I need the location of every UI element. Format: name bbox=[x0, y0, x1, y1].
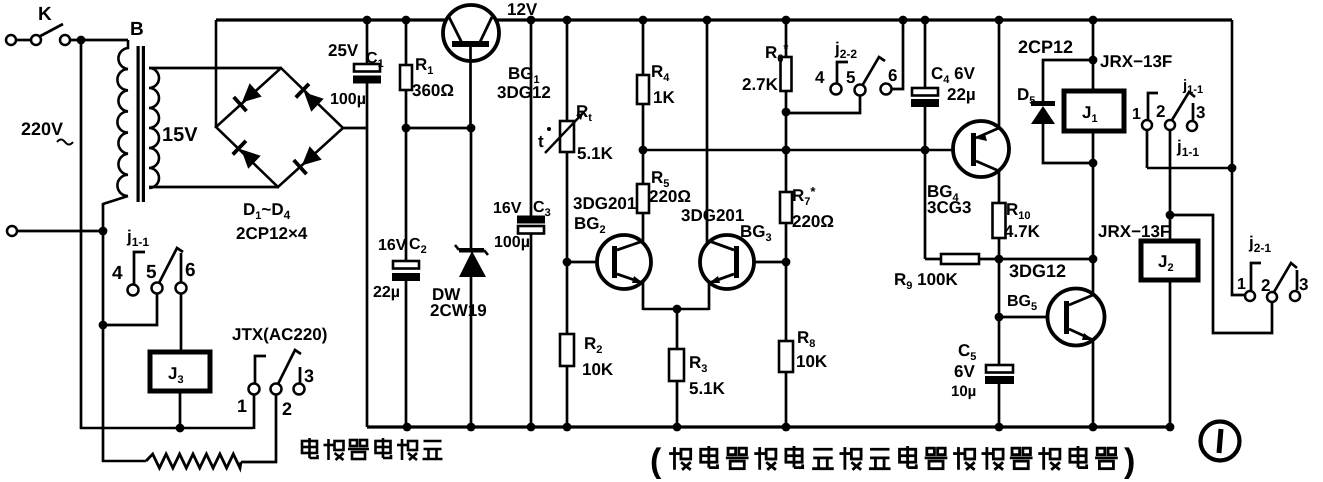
contact j2-2 terminal 4 stub bbox=[837, 62, 848, 83]
contact j1-1tr terminal 2 circle bbox=[1165, 120, 1175, 130]
svg-text:t: t bbox=[538, 132, 544, 151]
wire BG4 emitter to rail bbox=[998, 20, 1001, 128]
node junction contact5 tap bbox=[99, 321, 108, 330]
wire JTX terminal2 down to heater bbox=[241, 395, 276, 462]
wire C4 bottom bbox=[924, 107, 927, 150]
wire R6 bottom bbox=[785, 91, 788, 150]
capacitor C4 bbox=[912, 88, 938, 96]
transistor BG1 bbox=[443, 5, 499, 61]
wire C3 top bbox=[530, 20, 533, 217]
wire C4 top bbox=[924, 20, 927, 88]
wire Rt top bbox=[566, 20, 569, 121]
svg-text:220Ω: 220Ω bbox=[792, 212, 834, 231]
node junction node B bbox=[995, 255, 1004, 264]
wire right edge to j2-1 bbox=[1232, 292, 1245, 295]
svg-text:100µ: 100µ bbox=[494, 234, 530, 251]
wire BG5 collector bbox=[1092, 259, 1095, 296]
node junction rail C3 bbox=[527, 16, 536, 25]
node junction emitters bbox=[673, 305, 682, 314]
wire C1 bottom to ground bbox=[366, 83, 369, 427]
svg-text:10K: 10K bbox=[796, 352, 828, 371]
wire J2 bottom lead bbox=[1169, 280, 1172, 427]
wire j2-2 terminal 6 to rail bbox=[891, 20, 903, 89]
svg-text:6: 6 bbox=[185, 260, 196, 281]
svg-text:C4 6V: C4 6V bbox=[931, 64, 976, 86]
node junction R4 R5 bbox=[639, 146, 648, 155]
terminal 220V lower circle bbox=[7, 226, 17, 236]
wire C5 top bbox=[998, 317, 1001, 365]
wire BG5 emitter to ground bbox=[1092, 339, 1095, 427]
svg-text:JRX−13F: JRX−13F bbox=[1098, 222, 1170, 241]
svg-text:5.1K: 5.1K bbox=[689, 379, 726, 398]
switch K blade bbox=[40, 24, 64, 37]
wire BG2 base lead bbox=[567, 261, 597, 264]
svg-text:1K: 1K bbox=[653, 88, 675, 107]
svg-text:2: 2 bbox=[282, 399, 292, 419]
contact JTX terminal 1 circle bbox=[249, 384, 260, 395]
node junction D5 bottom bbox=[1089, 159, 1098, 168]
switch K throw circle bbox=[60, 35, 70, 45]
wire R10 bottom bbox=[998, 238, 1001, 317]
contact j1-1tr terminal 1 circle bbox=[1142, 120, 1152, 130]
svg-text:2: 2 bbox=[1261, 276, 1270, 295]
capacitor C2 bbox=[393, 261, 419, 269]
contact j1-1tr blade bbox=[1172, 92, 1195, 120]
svg-text:JTX(AC220): JTX(AC220) bbox=[232, 325, 327, 344]
wire R9 right lead bbox=[979, 258, 999, 261]
node junction D5 top bbox=[1089, 56, 1098, 65]
resistor R10 bbox=[993, 203, 1006, 238]
contact JTX terminal 3 bar bbox=[299, 367, 302, 383]
contact j1-1bl terminal 6 circle bbox=[176, 283, 187, 294]
node junction base BG4 bbox=[921, 146, 930, 155]
node junction primary bottom bbox=[99, 227, 108, 236]
svg-text:5.1K: 5.1K bbox=[577, 144, 614, 163]
wire R3 top bbox=[676, 309, 679, 349]
wire J2 node to j2-1 bbox=[1170, 215, 1272, 333]
svg-text:22µ: 22µ bbox=[373, 284, 400, 301]
node junction right edge bbox=[1228, 164, 1237, 173]
wire emitter common bbox=[643, 308, 709, 311]
node junction ground x=786 bbox=[782, 423, 791, 432]
contact j2-1 terminal 3 bar bbox=[1296, 270, 1299, 290]
svg-text:3: 3 bbox=[304, 366, 314, 386]
wire shared node line bbox=[643, 149, 953, 152]
contact j2-2 terminal 5 circle bbox=[855, 85, 866, 96]
node junction rail J1 bbox=[1089, 16, 1098, 25]
wire j1-1tr to right edge bbox=[1147, 167, 1232, 170]
svg-text:3DG201: 3DG201 bbox=[681, 206, 744, 225]
wire J2 top lead bbox=[1169, 215, 1172, 241]
wire j1-1tr terminal1 down bbox=[1146, 130, 1149, 168]
svg-text:2CP12: 2CP12 bbox=[1018, 37, 1073, 57]
capacitor C3 bbox=[517, 216, 545, 224]
switch K terminal circle left bbox=[6, 35, 16, 45]
node junction K output bbox=[77, 36, 86, 45]
wire j1-1bl terminal5 tap bbox=[103, 294, 157, 325]
node junction J1 node B bbox=[1089, 255, 1098, 264]
contact j1-1bl terminal 4 stub bbox=[134, 252, 145, 284]
transistor BG3 bbox=[700, 235, 754, 289]
relay coil J3 bbox=[150, 352, 210, 391]
svg-text:6V: 6V bbox=[954, 362, 975, 381]
wire C2 bottom bbox=[405, 281, 408, 427]
svg-text:3DG12: 3DG12 bbox=[497, 83, 551, 102]
svg-text:10µ: 10µ bbox=[951, 383, 976, 400]
wire primary bottom lead bbox=[103, 196, 128, 204]
svg-text:25V: 25V bbox=[328, 41, 359, 60]
svg-text:3: 3 bbox=[1196, 103, 1205, 122]
thermistor Rt bbox=[560, 121, 574, 152]
wire base node horizontal bbox=[406, 127, 471, 130]
wire 220V lower lead bbox=[17, 230, 103, 233]
resistor R1 bbox=[400, 65, 412, 90]
diode D1 bridge top-left bbox=[234, 83, 262, 111]
resistor R4 bbox=[637, 75, 649, 104]
node junction rail R4 bbox=[639, 16, 648, 25]
node junction ground x=1093 bbox=[1089, 423, 1098, 432]
resistor R9 bbox=[941, 254, 979, 264]
svg-text:220V: 220V bbox=[21, 119, 63, 139]
svg-text:220Ω: 220Ω bbox=[649, 187, 691, 206]
resistor R7 bbox=[780, 192, 792, 223]
wire BG2 emitter bbox=[642, 282, 645, 310]
svg-text:2CW19: 2CW19 bbox=[430, 301, 487, 320]
wire BG3 emitter bbox=[708, 282, 711, 310]
diode D5 2CP12 bbox=[1043, 60, 1093, 102]
capacitor C1 bbox=[354, 64, 380, 72]
wire C3 bottom bbox=[530, 234, 533, 427]
node junction J2 top node bbox=[1166, 211, 1175, 220]
contact j1-1tr terminal 1 stub bbox=[1148, 93, 1158, 119]
node junction DW base bbox=[467, 124, 476, 133]
wire secondary top lead bbox=[149, 67, 281, 70]
wire BG1 base down bbox=[469, 47, 472, 128]
resistor R6 bbox=[781, 57, 792, 91]
contact JTX blade bbox=[278, 350, 301, 384]
resistor R8 bbox=[779, 341, 793, 372]
node junction rail BG4 bbox=[995, 16, 1004, 25]
contact j1-1bl terminal 4 circle bbox=[128, 285, 139, 296]
switch K pole circle bbox=[31, 35, 41, 45]
node junction rail R1 bbox=[402, 16, 411, 25]
figure number circled 1 bbox=[1201, 422, 1240, 461]
wire BG3 base lead bbox=[754, 261, 786, 264]
svg-text:K: K bbox=[38, 4, 52, 25]
svg-text:16V: 16V bbox=[493, 200, 522, 217]
wire node B to J1 bbox=[999, 258, 1093, 261]
node junction ground x=1170 bbox=[1166, 423, 1175, 432]
wire R5 bottom to BG2 collector bbox=[642, 213, 645, 244]
node junction rail R6 bbox=[782, 16, 791, 25]
wire bridge minus to C1 line bbox=[343, 127, 368, 130]
node junction ground x=531 bbox=[527, 423, 536, 432]
node junction ground x=677 bbox=[673, 423, 682, 432]
contact j2-1 terminal 3 circle bbox=[1290, 291, 1300, 301]
node junction ground x=999 bbox=[995, 423, 1004, 432]
diode D3 bridge bottom-left bbox=[233, 141, 261, 169]
diode D4 bridge bottom-right bbox=[294, 146, 322, 174]
svg-text:4.7K: 4.7K bbox=[1004, 222, 1041, 241]
svg-text:1: 1 bbox=[1237, 276, 1246, 293]
contact j1-1tr terminal 3 circle bbox=[1187, 121, 1197, 131]
node junction rail C4 bbox=[921, 16, 930, 25]
wire right edge from rail bbox=[1231, 20, 1234, 292]
label heater chinese text bbox=[302, 438, 318, 458]
wire left vertical from K junction bbox=[80, 40, 83, 429]
wire R7 bottom bbox=[785, 223, 788, 262]
wire C1 top bbox=[366, 20, 369, 65]
capacitor C5 bbox=[986, 365, 1013, 373]
wire BG4 collector bbox=[998, 171, 1001, 203]
contact j2-1 terminal 1 stub bbox=[1251, 263, 1261, 291]
contact j2-2 terminal 4 circle bbox=[831, 84, 842, 95]
wire K to transformer bbox=[70, 39, 128, 42]
wire BG5 base lead bbox=[999, 316, 1048, 319]
contact JTX terminal 1 stub bbox=[255, 356, 266, 383]
transistor BG5 bbox=[1048, 289, 1105, 346]
wire R6 top bbox=[785, 20, 788, 57]
wire C4 down to R9 bbox=[924, 150, 927, 259]
wire R5 top bbox=[642, 150, 645, 184]
wire j1-1tr terminal2 down bbox=[1169, 130, 1172, 215]
svg-text:12V: 12V bbox=[507, 0, 538, 19]
svg-text:16V: 16V bbox=[378, 237, 407, 254]
svg-text:22µ: 22µ bbox=[947, 85, 976, 104]
node junction BG5 base bbox=[995, 313, 1004, 322]
svg-text:4: 4 bbox=[815, 68, 825, 87]
wire Rt to BG2 base bbox=[566, 152, 569, 262]
wire J3 bottom lead bbox=[179, 391, 182, 428]
wire J1 top lead bbox=[1092, 20, 1095, 91]
wire R3 bottom bbox=[676, 381, 679, 427]
svg-text:3: 3 bbox=[1299, 275, 1308, 294]
relay coil J1 bbox=[1064, 91, 1124, 131]
wire BG3 collector from rail bbox=[706, 20, 709, 243]
svg-text:100µ: 100µ bbox=[330, 91, 366, 108]
node junction BG3 base R8 bbox=[782, 258, 791, 267]
node junction j2-2 tap bbox=[782, 108, 791, 117]
svg-text:): ) bbox=[1124, 442, 1135, 480]
contact j2-1 terminal 1 circle bbox=[1245, 291, 1255, 301]
node junction ground x=567 bbox=[563, 423, 572, 432]
transistor BG2 bbox=[597, 235, 651, 289]
wire bridge plus to rail bbox=[215, 20, 218, 128]
svg-text:2.7K: 2.7K bbox=[742, 75, 779, 94]
svg-text:15V: 15V bbox=[162, 124, 198, 146]
wire ground rail bbox=[367, 425, 1171, 428]
contact JTX terminal 2 circle bbox=[271, 384, 282, 395]
wire to heater left bbox=[102, 460, 146, 463]
svg-text:6: 6 bbox=[888, 66, 897, 85]
wire K bbox=[16, 39, 31, 42]
contact j2-1 terminal 2 circle bbox=[1267, 292, 1277, 302]
contact j1-1tr terminal 3 bar bbox=[1192, 103, 1195, 120]
wire j2-2 terminal 5 to R6 bbox=[786, 96, 860, 113]
wire R7 top bbox=[785, 150, 788, 192]
contact j2-1 blade bbox=[1274, 263, 1297, 292]
contact j1-1bl terminal 5 circle bbox=[152, 283, 163, 294]
node junction rail BG3 collector bbox=[703, 16, 712, 25]
wire R1 bottom bbox=[405, 90, 408, 262]
wire neutral vertical bbox=[102, 203, 105, 462]
node junction ground x=407 bbox=[403, 423, 412, 432]
node junction J3 mains bbox=[176, 424, 185, 433]
contact j2-2 blade bbox=[862, 57, 885, 86]
transformer B primary winding bbox=[117, 40, 128, 196]
wire j1-1bl terminal6 to J3 bbox=[180, 294, 183, 352]
svg-text:JRX−13F: JRX−13F bbox=[1100, 52, 1172, 71]
node junction rail j2-2 bbox=[899, 16, 908, 25]
node junction rail C1 bbox=[363, 16, 372, 25]
contact j1-1bl terminal 6 bar bbox=[180, 253, 183, 283]
wire R1 top bbox=[405, 20, 408, 65]
svg-text:360Ω: 360Ω bbox=[412, 81, 454, 100]
svg-text:D1~D4: D1~D4 bbox=[243, 200, 291, 222]
node junction shared R6 bbox=[782, 146, 791, 155]
bridge rectifier diamond bbox=[216, 68, 343, 187]
contact JTX terminal 3 circle bbox=[294, 384, 305, 395]
transformer B secondary winding bbox=[149, 68, 159, 188]
svg-text:2: 2 bbox=[1156, 102, 1165, 121]
svg-text:3DG201: 3DG201 bbox=[573, 194, 636, 213]
svg-text:3DG12: 3DG12 bbox=[1009, 261, 1066, 281]
svg-text:R9 100K: R9 100K bbox=[894, 270, 958, 292]
node junction rail Rt bbox=[563, 16, 572, 25]
contact j1-1bl blade bbox=[159, 248, 183, 283]
transformer B core bbox=[137, 46, 140, 202]
wire secondary bottom lead bbox=[149, 186, 279, 189]
svg-text:5: 5 bbox=[846, 68, 855, 87]
svg-text:1: 1 bbox=[1132, 106, 1141, 123]
node junction base node R1 bbox=[402, 124, 411, 133]
svg-text:5: 5 bbox=[146, 262, 157, 283]
zener diode DW 2CW19 bbox=[470, 128, 473, 251]
transistor BG4 bbox=[953, 121, 1009, 177]
wire C5 bottom bbox=[998, 384, 1001, 427]
wire J1 bottom lead bbox=[1092, 131, 1095, 259]
svg-text:3CG3: 3CG3 bbox=[927, 198, 971, 217]
resistor R5 bbox=[637, 184, 649, 213]
svg-text:4: 4 bbox=[112, 263, 123, 284]
wire 12V top rail right segment bbox=[496, 18, 1232, 21]
node junction ground x=471 bbox=[467, 423, 476, 432]
resistor R3 bbox=[669, 349, 684, 381]
wire R8 bottom bbox=[785, 372, 788, 427]
diode D2 bridge top-right bbox=[296, 84, 324, 112]
relay coil J2 bbox=[1141, 241, 1198, 280]
svg-text:(: ( bbox=[650, 442, 662, 480]
wire 12V top rail left segment bbox=[216, 18, 446, 21]
svg-text:1: 1 bbox=[237, 396, 247, 416]
wire R9 left lead bbox=[925, 258, 941, 261]
svg-text:2CP12×4: 2CP12×4 bbox=[236, 224, 308, 243]
wire mains bottom line bbox=[80, 427, 253, 430]
wire R4 top bbox=[642, 20, 645, 75]
contact j2-2 terminal 6 circle bbox=[881, 84, 892, 95]
node junction BG2 base bbox=[563, 258, 572, 267]
heating element resistor zigzag bbox=[146, 454, 241, 468]
wire R2 top bbox=[566, 262, 569, 334]
resistor R2 bbox=[560, 334, 574, 366]
wire R8 top bbox=[785, 262, 788, 341]
svg-text:10K: 10K bbox=[582, 360, 614, 379]
svg-text:B: B bbox=[130, 19, 144, 40]
wire R4 bottom bbox=[642, 104, 645, 150]
wire R2 bottom bbox=[566, 366, 569, 427]
wire JTX terminal1 down bbox=[253, 395, 256, 429]
